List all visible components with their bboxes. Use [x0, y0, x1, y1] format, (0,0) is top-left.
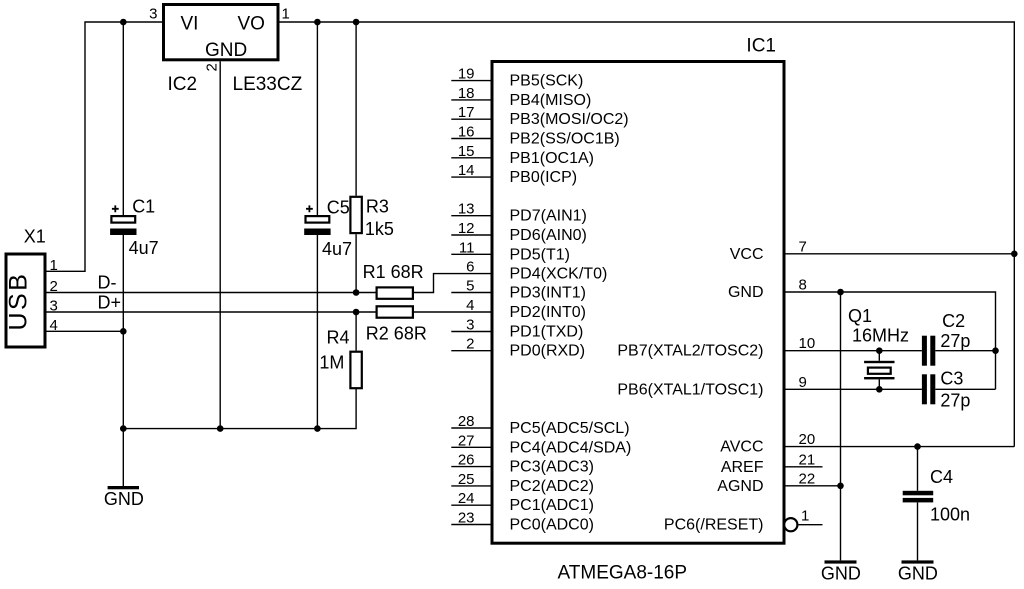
wire 3V3 rail from IC2 VO right to top-right corner down to VCC/AVCC	[279, 22, 1015, 447]
svg-text:PC0(ADC0): PC0(ADC0)	[510, 517, 594, 534]
svg-text:7: 7	[799, 238, 807, 255]
wire GND pin 8 right then down to crystal caps	[784, 292, 996, 389]
pin stub 19 PB5	[451, 80, 492, 82]
svg-text:GND: GND	[205, 40, 247, 61]
svg-text:15: 15	[458, 143, 475, 160]
svg-text:2: 2	[204, 63, 221, 71]
svg-text:PB1(OC1A): PB1(OC1A)	[510, 150, 594, 167]
node junction dot R3 top on 3V3 rail	[353, 19, 360, 26]
svg-text:PB3(MOSI/OC2): PB3(MOSI/OC2)	[510, 111, 629, 128]
capacitor C5 positive plate (outline)	[306, 216, 330, 223]
wire VCC pin 7 to 3V3 rail	[784, 253, 1014, 255]
svg-text:20: 20	[799, 431, 816, 448]
resistor R4 body	[350, 352, 361, 389]
node junction dot R3 bottom on D-	[353, 289, 360, 296]
svg-text:PC5(ADC5/SCL): PC5(ADC5/SCL)	[510, 420, 630, 437]
svg-text:AREF: AREF	[721, 459, 764, 476]
svg-text:R4: R4	[327, 327, 350, 347]
svg-text:24: 24	[458, 490, 475, 507]
node junction dot AGND on ground vertical	[837, 483, 844, 490]
svg-text:GND: GND	[728, 284, 764, 301]
svg-text:28: 28	[458, 413, 475, 430]
resistor R4 top lead from D+ junction	[355, 312, 357, 351]
svg-text:X1: X1	[24, 227, 46, 247]
capacitor C4 bottom plate	[903, 498, 934, 503]
resistor R3 top lead from 3V3 rail	[355, 22, 357, 196]
pin stub 27 PC4	[451, 446, 492, 448]
svg-text:13: 13	[458, 201, 475, 218]
svg-text:Q1: Q1	[848, 306, 872, 326]
pin stub 15 PB1	[451, 157, 492, 159]
wire R1 output jog up to IC1 pin 6	[414, 274, 492, 293]
svg-text:11: 11	[459, 239, 475, 256]
node junction dot C4 top	[914, 443, 921, 450]
svg-text:VO: VO	[238, 14, 265, 35]
svg-text:PC2(ADC2): PC2(ADC2)	[510, 478, 594, 495]
wire AGND pin 22 to ground vertical	[784, 485, 841, 487]
node junction dot C5 top on 3V3 rail	[314, 19, 321, 26]
ground symbol bar (right)	[902, 560, 934, 563]
capacitor C1 positive plate (outline)	[111, 216, 135, 223]
svg-text:9: 9	[799, 374, 807, 391]
wire X1 pin 4 to C1 lead junction	[47, 330, 124, 332]
svg-text:27p: 27p	[940, 331, 970, 351]
pin stub 2 PD0	[451, 350, 492, 352]
capacitor C4 bottom lead	[917, 502, 919, 560]
node junction dot ground rail at C1 lead	[120, 425, 127, 432]
svg-text:PB0(ICP): PB0(ICP)	[510, 169, 578, 186]
svg-text:5: 5	[466, 278, 474, 295]
svg-text:PB4(MISO): PB4(MISO)	[510, 92, 592, 109]
svg-text:C1: C1	[132, 197, 155, 217]
crystal Q1 top plate	[864, 361, 894, 363]
wire C2 right plate to GND vertical	[935, 350, 995, 352]
X1 USB connector box	[6, 254, 45, 347]
wire C1 bottom lead down to ground rail	[122, 235, 124, 429]
wire C5 bottom lead down to ground rail	[316, 235, 318, 429]
IC1 ATMEGA8 box	[492, 62, 784, 544]
node junction dot C2/C3 ground	[992, 347, 999, 354]
svg-text:PB6(XTAL1/TOSC1): PB6(XTAL1/TOSC1)	[617, 381, 763, 398]
svg-text:8: 8	[799, 277, 807, 294]
svg-text:27: 27	[458, 432, 475, 449]
svg-text:2: 2	[466, 336, 474, 353]
capacitor C5 negative plate (filled)	[304, 229, 330, 236]
wire C3 right plate to GND vertical	[935, 388, 995, 390]
svg-text:R1 68R: R1 68R	[363, 262, 424, 282]
svg-text:21: 21	[799, 451, 816, 468]
svg-text:PD4(XCK/T0): PD4(XCK/T0)	[510, 266, 608, 283]
svg-text:C5: C5	[327, 197, 350, 217]
pin stub 5 PD3	[451, 292, 492, 294]
svg-text:PD2(INT0): PD2(INT0)	[510, 304, 586, 321]
ground symbol bar (left)	[108, 486, 139, 489]
capacitor C1 top lead	[122, 22, 124, 216]
svg-text:PD1(TXD): PD1(TXD)	[510, 324, 584, 341]
node junction dot GND net to ground rail	[837, 289, 844, 296]
crystal Q1 top lead	[878, 351, 880, 361]
svg-text:PD0(RXD): PD0(RXD)	[510, 343, 586, 360]
svg-text:6: 6	[466, 259, 474, 276]
svg-text:GND: GND	[821, 564, 861, 584]
resistor R2 body	[377, 306, 413, 317]
svg-text:10: 10	[799, 335, 816, 352]
svg-text:D+: D+	[98, 293, 122, 313]
svg-text:PD5(T1): PD5(T1)	[510, 246, 570, 263]
svg-text:1k5: 1k5	[365, 219, 394, 239]
svg-text:3: 3	[149, 6, 157, 23]
crystal Q1 bottom plate	[864, 377, 894, 379]
node junction dot ground rail at C5 lead	[314, 425, 321, 432]
capacitor C4 top lead	[917, 447, 919, 491]
capacitor C2 right plate	[930, 336, 935, 366]
svg-text:C4: C4	[930, 467, 953, 487]
wire IC2 GND pin 2 down to ground rail	[219, 61, 221, 428]
svg-text:R2 68R: R2 68R	[366, 323, 427, 343]
svg-text:GND: GND	[898, 564, 938, 584]
capacitor C4 top plate	[903, 491, 934, 496]
svg-text:PB5(SCK): PB5(SCK)	[510, 73, 584, 90]
svg-text:1: 1	[282, 6, 290, 23]
svg-text:D-: D-	[98, 273, 117, 293]
svg-text:25: 25	[458, 471, 475, 488]
node junction dot VCC on right rail	[1011, 251, 1018, 258]
svg-text:4: 4	[466, 297, 474, 314]
IC2 voltage regulator box	[164, 5, 279, 60]
pin stub 18 PB4	[451, 99, 492, 101]
wire R3 bottom lead to D- junction	[355, 234, 357, 292]
svg-text:18: 18	[458, 85, 475, 102]
pin 1 inversion circle	[784, 518, 797, 531]
wire D- net from X1 pin 2 to R1	[47, 292, 376, 294]
svg-text:100n: 100n	[930, 504, 970, 524]
svg-text:R3: R3	[366, 196, 389, 216]
svg-text:PC1(ADC1): PC1(ADC1)	[510, 497, 594, 514]
svg-text:PC4(ADC4/SDA): PC4(ADC4/SDA)	[510, 439, 632, 456]
crystal Q1 body	[868, 368, 891, 374]
capacitor C1 negative plate (filled)	[110, 229, 136, 236]
svg-text:14: 14	[458, 162, 475, 179]
svg-text:AGND: AGND	[717, 478, 763, 495]
svg-text:PC6(/RESET): PC6(/RESET)	[664, 517, 764, 534]
svg-text:LE33CZ: LE33CZ	[233, 74, 303, 95]
pin stub 11 PD5	[451, 253, 492, 255]
svg-text:1M: 1M	[319, 352, 344, 372]
pin stub 1 RESET	[799, 524, 823, 526]
pin stub 14 PB0	[451, 176, 492, 178]
svg-text:16MHz: 16MHz	[852, 326, 909, 346]
wire XTAL1 from pin 9 to C3	[784, 388, 922, 390]
node junction dot R4 top on D+	[353, 309, 360, 316]
svg-text:VI: VI	[181, 14, 199, 35]
pin stub 26 PC3	[451, 466, 492, 468]
svg-text:PB2(SS/OC1B): PB2(SS/OC1B)	[510, 131, 620, 148]
capacitor C5 plus sign	[306, 205, 313, 212]
capacitor C3 right plate	[930, 374, 935, 404]
node junction dot crystal top	[876, 347, 883, 354]
svg-text:GND: GND	[104, 489, 144, 509]
svg-text:4u7: 4u7	[322, 239, 352, 259]
svg-text:IC1: IC1	[746, 36, 776, 57]
capacitor C3 left plate	[922, 374, 927, 404]
pin stub 25 PC2	[451, 485, 492, 487]
wire R2 output to IC1 pin 4	[414, 311, 492, 313]
svg-text:26: 26	[458, 452, 475, 469]
resistor R1 body	[377, 287, 413, 298]
svg-text:C3: C3	[940, 369, 963, 389]
wire R4 bottom lead down to ground rail corner	[123, 388, 356, 428]
wire ground symbol lead (left)	[122, 429, 124, 486]
pin stub 24 PC1	[451, 504, 492, 506]
node junction dot C1 top on VBUS rail	[120, 19, 127, 26]
svg-text:PC3(ADC3): PC3(ADC3)	[510, 459, 594, 476]
pin stub 12 PD6	[451, 234, 492, 236]
svg-text:AVCC: AVCC	[720, 439, 763, 456]
pin stub 21 AREF	[784, 466, 823, 468]
svg-text:4u7: 4u7	[129, 238, 159, 258]
svg-text:PD3(INT1): PD3(INT1)	[510, 285, 586, 302]
svg-text:17: 17	[458, 104, 475, 121]
svg-text:IC2: IC2	[168, 74, 198, 95]
ground symbol bar (middle)	[825, 560, 857, 563]
wire D+ net from X1 pin 3 to R2	[47, 311, 376, 313]
capacitor C5 top lead	[316, 22, 318, 216]
resistor R3 body	[350, 197, 361, 233]
svg-text:19: 19	[458, 66, 475, 83]
svg-text:PD7(AIN1): PD7(AIN1)	[510, 208, 587, 225]
svg-text:12: 12	[458, 220, 475, 237]
svg-text:1: 1	[801, 508, 809, 525]
pin stub 3 PD1	[451, 331, 492, 333]
svg-text:C2: C2	[942, 311, 965, 331]
svg-text:PB7(XTAL2/TOSC2): PB7(XTAL2/TOSC2)	[617, 343, 763, 360]
svg-text:22: 22	[799, 470, 816, 487]
node junction dot X1 pin4 to C1 lead	[120, 328, 127, 335]
crystal Q1 bottom lead	[878, 379, 880, 389]
wire XTAL2 from pin 10 to C2	[784, 350, 922, 352]
wire AVCC pin 20 to right rail	[784, 446, 1014, 448]
pin stub 17 PB3	[451, 118, 492, 120]
pin stub 16 PB2	[451, 138, 492, 140]
svg-text:ATMEGA8-16P: ATMEGA8-16P	[558, 563, 688, 584]
pin stub 28 PC5	[451, 427, 492, 429]
svg-text:PD6(AIN0): PD6(AIN0)	[510, 227, 587, 244]
pin stub 13 PD7	[451, 215, 492, 217]
capacitor C2 left plate	[922, 336, 927, 366]
wire from X1 pin 1 up to IC2 VI (VBUS rail)	[47, 22, 164, 271]
svg-text:USB: USB	[4, 272, 32, 331]
pin stub 23 PC0	[451, 524, 492, 526]
capacitor C1 plus sign	[112, 205, 119, 212]
wire ground vertical from GND pin 8 down to ground symbol	[840, 292, 842, 560]
svg-text:VCC: VCC	[730, 246, 764, 263]
svg-text:27p: 27p	[940, 391, 970, 411]
svg-text:3: 3	[466, 317, 474, 334]
node junction dot ground rail at IC2 GND	[217, 425, 224, 432]
svg-text:1: 1	[50, 257, 58, 274]
node junction dot crystal bottom	[876, 386, 883, 393]
svg-text:16: 16	[458, 124, 475, 141]
svg-text:23: 23	[458, 510, 475, 527]
